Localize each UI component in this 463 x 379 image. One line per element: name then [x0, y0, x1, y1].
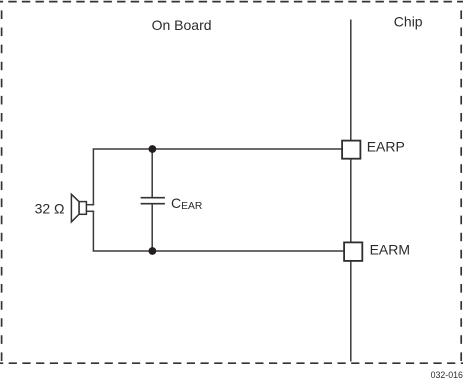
- board boundary dashed frame : top edge: [0, 1, 463, 3]
- speaker LS1 driver box: [79, 202, 86, 215]
- junction node: top net: [149, 145, 157, 153]
- wire: top net from left corner to EARP: [93, 149, 342, 205]
- capacitor CEAR top lead wire: [151, 149, 153, 197]
- speaker LS1 top terminal stub: [87, 204, 95, 206]
- pin pad EARM: [344, 242, 362, 261]
- svg-text:Chip: Chip: [394, 14, 423, 30]
- junction node: bottom net: [149, 247, 157, 255]
- capacitor CEAR bottom lead wire: [151, 204, 153, 251]
- board boundary dashed frame : left edge: [1, 2, 3, 364]
- svg-text:32 Ω: 32 Ω: [35, 200, 65, 216]
- capacitor CEAR bottom plate: [141, 203, 165, 205]
- board boundary dashed frame : bottom edge: [0, 362, 463, 364]
- wire: bottom net from speaker to EARM: [93, 211, 346, 251]
- capacitor CEAR top plate: [141, 197, 165, 199]
- speaker LS1 cone: [71, 194, 79, 222]
- pin pad EARP: [342, 141, 360, 159]
- svg-text:EARP: EARP: [367, 139, 405, 155]
- board boundary dashed frame : right edge: [460, 2, 462, 364]
- svg-text:On Board: On Board: [152, 17, 212, 33]
- speaker LS1 bottom terminal stub: [87, 210, 95, 212]
- svg-text:032-016: 032-016: [431, 370, 463, 379]
- svg-text:EARM: EARM: [370, 242, 410, 258]
- chip boundary line: [350, 20, 352, 362]
